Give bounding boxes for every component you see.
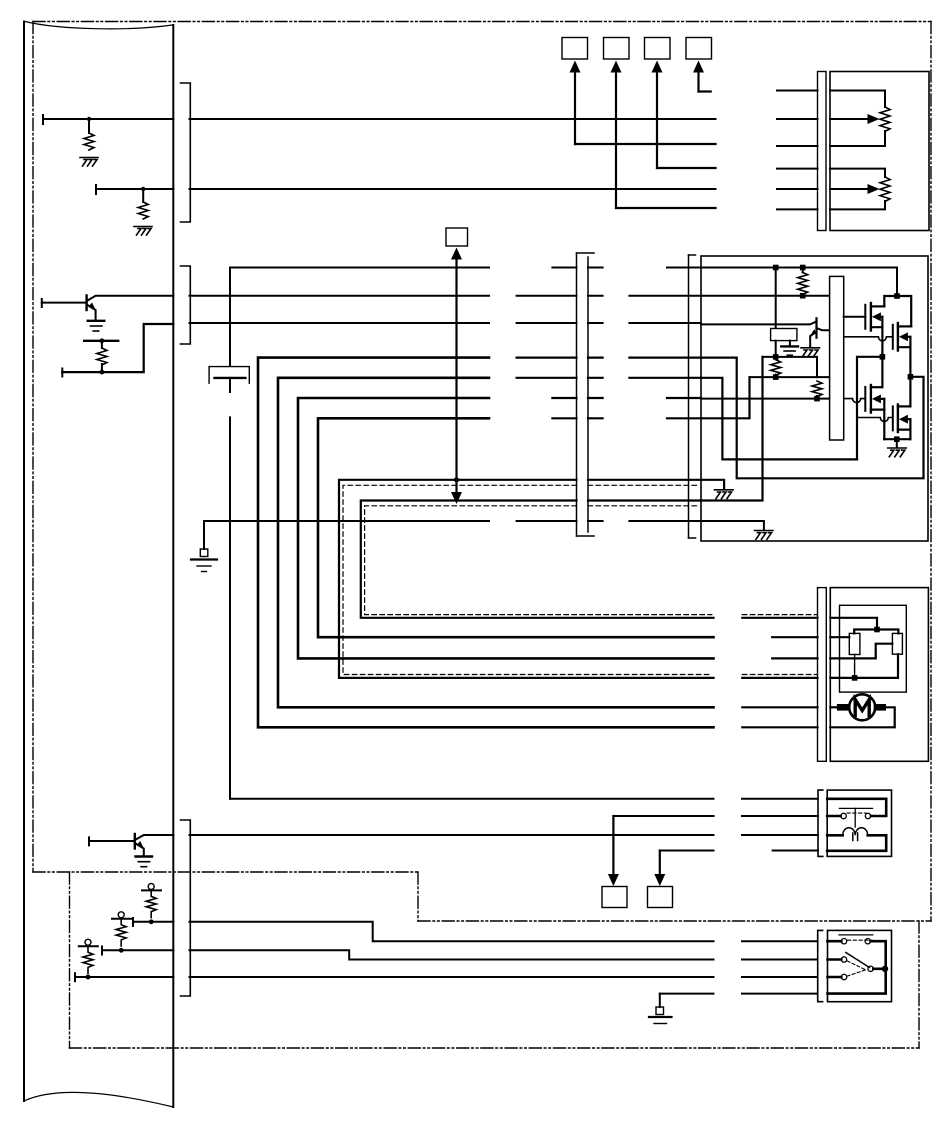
relay wire 4 [660,850,714,852]
M3 source vertical [883,399,885,439]
wire B resume [742,959,817,961]
wire H resume right [588,479,701,481]
ECU internal L wire to pin C [62,324,173,372]
relay wire 3 (from Q2) [190,834,714,836]
relay square T1 [602,887,627,908]
lower dash-dot box bottom edge [70,1047,920,1049]
MOSFET M3 channel [870,385,872,413]
node R3 on wire [100,370,105,375]
switch common node [882,966,888,972]
switch pivot link [873,967,885,970]
node M2 M4 [908,374,914,380]
motor feed resume row2 [772,636,817,638]
switch dashed top link [847,939,872,941]
transistor Q1 base bar [85,296,87,311]
node top rail [894,293,900,299]
ground for R2 [134,227,152,236]
node Ra row2 [800,293,806,299]
switch top bar [839,934,873,936]
pot2 wiper arrow [868,184,880,194]
wire H motor resume [742,677,817,679]
row E mid segments [517,377,701,379]
pot1 wiper arrow [868,114,880,124]
sensor resistor left [849,633,860,654]
row F internal wire [701,398,830,400]
relay coil wire [827,834,843,837]
relay wire 4 resume [773,850,818,852]
switch row1 wire [828,940,842,943]
shield cap plate [215,377,246,379]
MOSFET M2 gate wire with hop [844,337,893,341]
relay feed resume [742,798,818,800]
wire W2 (ECU internal) [96,188,173,190]
connector C1 left line [576,253,578,536]
MOSFET M3 arrow [872,395,881,404]
ECU connector bracket B1 [181,83,191,222]
wire I motor resume [742,617,817,619]
switch wire 4 [660,993,714,995]
shielded wire I (S path) [361,501,714,618]
wire from S3 drop [657,167,716,169]
MOSFET M1 arrow [872,312,881,321]
row J wire [204,520,489,522]
wire C harness [190,976,714,978]
resistor Rc lower stem [775,375,777,377]
motor M letter [855,700,869,716]
G_TOP [43,38,818,236]
bottom rail ground stem [896,439,898,447]
nested wire G [318,418,714,637]
relay coil [843,828,868,836]
vertical x775.7 to relay coil [775,268,777,329]
harness dash-dot box left edge [32,22,34,873]
arrow into S4 [693,61,704,92]
MOSFET M3 gate wire with hop [844,399,866,403]
switch contact circle t2 [841,957,846,962]
switch wire 4 ground drop [659,994,661,1007]
harness dash-dot box bottom-right edge [418,920,931,922]
motor feed resume row6 [742,726,817,728]
row A mid segments [552,267,576,269]
MOSFET M2 drain stub [898,325,911,327]
relay coil return [827,835,886,851]
wire A harness + step down [190,922,714,941]
MOSFET M3 source stub [871,399,884,410]
connector C2 bottom tick [689,537,696,539]
arrow into S2 [611,61,622,209]
node P2 [119,948,124,953]
node P3 [86,975,91,980]
wire from S2 drop [616,207,716,209]
sensor box [830,72,929,231]
harness dash-dot box bottom-left edge [33,871,418,873]
transistor Q1 emitter arrow [89,302,96,310]
transistor Q1 collector [87,296,174,301]
relay coil component box [771,329,797,341]
transistor Q2 emitter arrow [137,841,144,849]
transistor Q3 base bar [815,318,817,337]
node bottom rail [894,436,900,442]
connector C2 top tick [689,254,696,256]
relay coil loop tails [853,833,858,841]
MOSFET M4 gate wire with hop [857,418,893,422]
harness dash-dot box right edge [930,22,932,922]
resistor Ra [798,273,808,295]
node row1 a [773,265,779,271]
ground Q3 (rake) [801,348,820,357]
relay square T2 [648,887,673,908]
ground J (rake) [755,531,774,540]
shield cap bracket [209,367,249,384]
resistor R3 lower stem [101,364,103,372]
switch wire 4 resume [742,993,817,995]
lower dash-dot box right edge [918,921,920,1048]
relay actuator bar [839,807,872,809]
node Rb row F [814,396,820,402]
wire W2 right stub [777,188,818,190]
ground MOSFET (rake) [888,448,907,457]
MOSFET M4 drain stub [898,405,911,407]
ECU left edge [23,22,25,1102]
ground for R1 [80,158,98,167]
relay contact dashed link [847,812,866,814]
transistor Q2 base bar [134,834,136,849]
left resistor bottom lead [854,655,856,678]
MOSFET M4 gate plate [892,406,894,430]
bottom rail [884,438,910,440]
row D internal wire [763,357,818,377]
wire W1 right stub [777,118,818,120]
ground coil box (earth) [781,346,798,355]
G_MOTORBOX [818,588,929,762]
sensor resistor right [892,633,902,654]
transistor Q1 emitter [87,305,96,321]
MOSFET M1 drain stub [871,305,884,307]
motor right terminal [874,704,886,711]
transistor Q2 base wire [89,840,135,842]
chassis ground mid [191,549,217,572]
pot1 bottom lead [830,131,885,146]
node on W1 [87,117,91,121]
resistor Rb [812,381,822,397]
pot1 wiper wire [830,118,869,120]
relay box [827,790,891,856]
MOSFET M4 source stub [898,419,911,429]
wire C (ECU internal) [75,976,173,978]
connector C1 bottom tick [577,535,595,537]
ground Q2 (earth) [136,857,153,867]
capacitor plate below Q1 ground [84,340,118,342]
motor left terminal [837,704,849,711]
node row1 b [800,265,806,271]
wire hook at x62 [61,369,63,377]
ECU connector bracket B2 [181,266,191,344]
relay connector bracket [818,790,823,856]
row E entry and loop to M1/M3 node [701,378,857,460]
wire A resume [742,940,817,942]
arrow into S3 [652,61,663,169]
row I entry turning up x762.5 [701,357,763,501]
connector square S3 [645,38,671,60]
pot feed stub row1 [777,90,818,92]
wire from S1 drop [575,143,716,145]
transistor Q3 emitter arrow [810,329,817,336]
switch connector bracket [818,930,823,1001]
MOSFET M2 arrow [899,332,908,341]
pull-up P3 resistor [83,946,93,973]
coil box ground stem [789,341,791,346]
shielded wire H (U path) [339,480,714,678]
wire A (ECU internal) [133,921,173,923]
switch blade [846,953,870,968]
relay contact wire left [827,815,840,818]
vertical bus x230 stub below cap [229,378,231,392]
pot2 top lead [830,169,885,177]
motor feed resume row3 [772,657,817,659]
harness dash-dot box top edge [33,21,931,23]
relay wire4 drop arrow [654,851,665,887]
wire W1 (ECU internal) [43,118,173,120]
sensor connector [818,72,827,231]
node P1 [149,919,154,924]
pull-up P1 circle [148,884,154,890]
connector square S2 [604,38,630,60]
wire B hook [101,947,103,955]
MOSFET M4 arrow [899,415,908,424]
pull-up P1 resistor [146,890,156,917]
switch contact circle t4 [865,939,870,944]
inner row3 wire S-bend [830,644,892,659]
relay contact feed [827,799,886,816]
motor return wire [830,707,894,727]
node on W2 [141,187,145,191]
node M1 M3 [880,354,886,360]
resistor R2 stem [142,189,144,202]
row J ground drop [203,521,205,549]
MOSFET M2 source stub [898,337,911,347]
transistor Q3 collector [817,328,830,330]
MOSFET M4 channel [897,405,899,433]
wire C hook [74,973,76,981]
relay actuator stem [854,808,856,827]
ground H (rake) [715,490,734,499]
switch contact circle t1 [841,939,846,944]
arrow line up into S5 [451,248,462,505]
pull-up P1 bar [142,889,161,891]
motor feed resume row5 [742,706,817,708]
shield dashed path 1 [343,485,818,674]
pull-up P2 bar [112,918,131,920]
resistor R1 [84,133,94,150]
row2 wire [701,295,830,297]
MOSFET M1 gate wire [844,316,866,318]
MOSFET M1 source stub [871,317,883,327]
vertical x857 with corner to node [857,357,880,460]
G_POTBOX [818,72,930,231]
transistor Q3 emitter [810,332,816,348]
relay wire 2 [613,815,713,817]
signal square S5 [446,228,468,246]
harness dash-dot box bottom step [417,872,419,921]
resistor R1 stem [88,119,90,133]
motor connector [818,588,827,762]
resistor Rb lower stem [816,396,818,399]
resistor Rc [771,360,781,376]
pot1 top lead [830,91,885,108]
relay feed wire (from bus x230) [230,798,714,800]
relay contact circle left [841,813,846,818]
pot1 resistor [880,107,890,131]
row G entry turning up [701,377,750,418]
row1 supply wire [701,268,897,294]
gate driver bar [830,276,844,440]
transistor Q2 collector [135,835,174,840]
MOSFET M3 drain stub [871,386,883,388]
row C segments [190,322,490,324]
lower dash-dot box left edge [69,872,71,1048]
row B segments [190,295,490,297]
transistor Q2 emitter [135,843,144,857]
ECU torn bottom edge [24,1092,173,1107]
chassis ground bottom [649,1007,672,1024]
node arrow line on wire H [454,477,459,482]
motor unit box [830,588,928,762]
wire B (ECU internal) [102,949,173,951]
MOSFET M1 channel [870,303,872,331]
ECU connector bracket B3 [181,820,191,996]
vertical bus x230 lower run [229,417,231,798]
wire C resume [742,976,817,978]
row E internal wire [750,376,830,378]
M4 source vertical [909,419,911,439]
nested wire F [298,398,714,658]
node row D1 [773,354,779,360]
MOSFET M1 gate plate [864,305,866,329]
arrow into S1 [570,61,581,145]
row3 wire to Q3 [701,322,817,325]
pull-up P3 bar [79,945,98,947]
connector square S4 [686,38,712,60]
connector C2 line [688,255,690,538]
row D mid segments [517,357,701,359]
G_SWITCHBOX [818,930,892,1001]
pot stub row3 [777,145,818,147]
wire W2 harness segment [190,188,716,190]
G_MIDBAND [190,228,819,1024]
row F mid segments [552,397,701,399]
switch box [828,930,892,1001]
switch row2 wire [828,958,842,961]
shield dashed path 2 [365,506,818,615]
inner row1 wire [830,618,877,630]
resistor R3 stem [101,341,103,348]
pot stub row4 [777,168,818,170]
wire from S4 drop [699,90,711,92]
MOSFET M2 channel [897,323,899,351]
inner row2 wire [830,636,849,638]
connector C1 right line [587,257,589,532]
transistor Q2 base hook [88,837,90,845]
pot stub row6 [777,208,818,210]
wire W1 hook [42,115,44,124]
wire I resume right [588,499,701,501]
G_MOSFETBOX [701,256,928,541]
wire B harness + step down [190,950,714,959]
switch row3 wire [828,976,842,979]
switch contact circle t3 [841,974,846,979]
row G mid segments [552,417,701,419]
wire A hook [132,918,134,926]
switch common wiring [828,941,886,993]
connector C1 top tick [577,252,595,254]
wire W2 hook [95,185,97,194]
resistor top rail [854,630,898,634]
node inner rail [874,627,880,633]
ECU right edge [172,25,174,1107]
relay contact circle right [865,813,870,818]
M1-M3 connecting vertical [881,317,883,387]
node on plate [100,338,105,343]
G_RELAYBOX [818,790,892,856]
row J mid segments [517,520,577,522]
pull-up P2 resistor [116,919,126,946]
node row E1 [773,374,779,380]
pull-up P2 circle [118,912,124,918]
row H entry to ground [701,480,724,490]
top rail M1 M2 [884,296,911,326]
G_ECU_MID [42,296,174,982]
row J entry to ground [701,521,764,530]
driver module box [701,256,928,541]
switch dashed blade pos1 [847,961,866,970]
pot2 bottom lead [830,201,885,209]
ground Q1 (earth) [88,321,105,331]
connector square S1 [562,38,588,60]
inner row4 wire [830,654,898,678]
MOSFET M3 gate plate [864,387,866,411]
M2-M4 connecting vertical [909,337,911,407]
G_ECU [24,22,190,1108]
row D entry and long loop to M2/M4 node [701,358,924,479]
vertical x775.7 below coil box [775,341,777,357]
switch blade pivot circle [868,966,873,971]
resistor R3 [97,348,107,365]
nested wire E [278,378,714,708]
transistor Q1 base wire [42,302,87,304]
resistor Ra lower stem [802,294,804,295]
pot2 resistor [880,177,890,201]
wire W1 harness segment [190,118,716,120]
resistor R2 [138,202,148,219]
switch dashed blade pos2 [847,970,867,977]
relay wire 3 resume [742,834,818,836]
relay wire2 drop arrow [608,816,619,886]
pot2 wiper wire [830,188,869,190]
node inner row4 [852,675,858,681]
sensor inner box [840,605,907,692]
pull-up P3 circle [85,939,91,945]
transistor Q1 base hook [41,299,43,307]
nested wire D [258,358,714,728]
relay wire 2 resume [742,815,818,817]
resistor Ra stem [802,268,804,273]
MOSFET M2 gate plate [892,325,894,349]
motor feed wire [830,706,837,708]
ECU torn top edge [25,22,173,29]
motor M circle [849,694,875,720]
vertical bus x230 upper [230,268,489,367]
